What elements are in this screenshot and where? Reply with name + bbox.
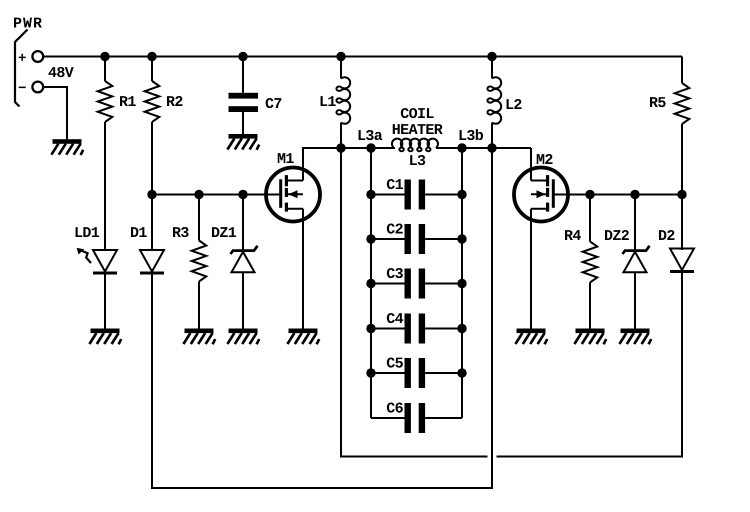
svg-text:−: − (18, 81, 26, 97)
svg-text:M2: M2 (536, 152, 553, 169)
wire top rail to R2 (151, 57, 153, 82)
ground DZ2 (619, 329, 651, 345)
wire R2 to gate node (151, 122, 153, 195)
wire L2 to L3b row (491, 123, 493, 149)
node top rail / L1 (336, 52, 345, 61)
svg-text:R1: R1 (119, 94, 136, 111)
wire DZ2 to ground (634, 272, 636, 328)
node top rail / R2 (147, 52, 156, 61)
wire C7 to ground (242, 112, 244, 134)
node tank left rail C2 (366, 234, 375, 243)
wire gate row to R3 (198, 195, 200, 241)
node tank left rail C4 (366, 324, 375, 333)
svg-text:L2: L2 (505, 97, 522, 114)
node L3b (457, 143, 466, 152)
capacitor C5 (371, 358, 462, 388)
connector J1 bracket (15, 30, 28, 107)
svg-text:48V: 48V (48, 65, 74, 82)
node tank right rail C2 (457, 234, 466, 243)
wire cross-coupling L3a to D2 cathode (341, 148, 682, 457)
node tank left rail C3 (366, 279, 375, 288)
capacitor C2 (371, 224, 462, 254)
zener diode DZ1 (231, 246, 258, 272)
inductor L2 (487, 77, 501, 124)
svg-text:R2: R2 (166, 94, 183, 111)
node gate row / R5 / D2 (677, 190, 686, 199)
svg-text:COIL: COIL (400, 106, 434, 123)
svg-text:L3b: L3b (458, 128, 484, 145)
resistor R5 (675, 83, 690, 124)
wire gate row to R4 (589, 195, 591, 242)
wire gate row to DZ2 (634, 195, 636, 251)
node gate row / R3 (194, 190, 203, 199)
svg-text:LD1: LD1 (74, 225, 100, 242)
node gate row / R4 (585, 190, 594, 199)
capacitor C3 (371, 269, 462, 299)
wire DZ1 to ground (242, 272, 244, 328)
diode D2 (670, 249, 694, 274)
wire M2 drain lead (530, 148, 532, 181)
wire top rail to R1 (104, 57, 106, 82)
node gate row / DZ2 (630, 190, 639, 199)
capacitor C6 (371, 403, 462, 433)
wire L3b to M2 drain (462, 147, 531, 149)
node tank left rail C5 (366, 368, 375, 377)
wire M1 gate row (152, 194, 280, 196)
svg-text:HEATER: HEATER (392, 122, 443, 139)
wire M1 source to ground (302, 209, 304, 329)
wire M2 source to ground (530, 209, 532, 329)
node tank left rail C1 (366, 190, 375, 199)
wire - terminal to ground (43, 87, 67, 139)
resistor R2 (145, 81, 160, 122)
svg-text:C5: C5 (386, 356, 403, 373)
node top rail / L2 (487, 52, 496, 61)
svg-text:PWR: PWR (13, 16, 43, 33)
wire tank right rail (461, 148, 463, 418)
node tank right rail C4 (457, 324, 466, 333)
svg-text:R3: R3 (172, 225, 189, 242)
wire top rail to C7 (242, 57, 244, 93)
ground R4 (574, 329, 606, 345)
node gate row / DZ1 (238, 190, 247, 199)
terminal + pin (32, 51, 43, 62)
svg-text:C1: C1 (386, 177, 403, 194)
ground power input (51, 139, 83, 155)
transistor M2 (N-MOSFET) (514, 168, 568, 222)
capacitor C4 (371, 314, 462, 344)
ground C7 (227, 134, 259, 150)
node L2 / M2 drain / cross wire (487, 143, 496, 152)
svg-text:L3a: L3a (357, 128, 383, 145)
inductor L1 (336, 77, 350, 124)
node top rail / R1 (100, 52, 109, 61)
ground LD1 (89, 329, 121, 345)
svg-text:D2: D2 (658, 228, 675, 245)
svg-text:DZ1: DZ1 (211, 225, 237, 242)
wire LD1 to ground (104, 275, 106, 329)
svg-text:M1: M1 (277, 151, 294, 168)
terminal - pin (32, 82, 43, 93)
wire top rail to R5 (681, 57, 683, 84)
svg-text:DZ2: DZ2 (604, 228, 630, 245)
svg-text:C3: C3 (386, 266, 403, 283)
svg-text:L1: L1 (319, 94, 336, 111)
wire M1 drain to L3a rail (303, 148, 395, 181)
wire D1 cathode to M2 drain node (152, 148, 492, 488)
resistor R4 (583, 242, 598, 283)
ground M2 source (515, 329, 547, 345)
wire R4 to ground (589, 283, 591, 329)
svg-text:R4: R4 (564, 228, 581, 245)
wire top rail to L2 (491, 57, 493, 79)
svg-text:C4: C4 (386, 311, 403, 328)
LED LD1 (77, 248, 117, 275)
resistor R1 (98, 81, 113, 122)
node tank right rail C3 (457, 279, 466, 288)
svg-text:C7: C7 (265, 96, 282, 113)
zener diode DZ2 (623, 246, 650, 272)
wire M2 gate row (555, 194, 683, 196)
wire L3 leads (371, 147, 462, 149)
wire R5 to gate node (681, 124, 683, 195)
ground R3 (183, 329, 215, 345)
node top rail / C7 (238, 52, 247, 61)
node tank right rail C5 (457, 368, 466, 377)
node L1 / cross wire (336, 143, 345, 152)
wire R3 to ground (198, 282, 200, 329)
wire L1 to L3a node (340, 123, 342, 149)
capacitor C1 (371, 180, 462, 210)
diode D1 (140, 250, 164, 275)
svg-text:L3: L3 (409, 153, 426, 170)
node tank right rail C1 (457, 190, 466, 199)
transistor M1 (N-MOSFET) (266, 168, 320, 222)
wire gate node to D1 (151, 195, 153, 251)
svg-text:+: + (18, 51, 26, 67)
node M1 gate / R2 / D1 (147, 190, 156, 199)
svg-text:D1: D1 (130, 225, 147, 242)
svg-text:R5: R5 (649, 95, 666, 112)
wire tank left rail (370, 148, 372, 418)
wire + terminal to top rail (43, 56, 682, 58)
wire top rail to L1 (340, 57, 342, 79)
inductor L3 work coil (392, 139, 438, 152)
wire gate row to DZ1 (242, 195, 244, 251)
ground M1 source (287, 329, 319, 345)
ground DZ1 (227, 329, 259, 345)
wire R1 to LD1 (104, 122, 106, 250)
wire gate node to D2 (681, 195, 683, 251)
node L3a (366, 143, 375, 152)
svg-text:C6: C6 (386, 401, 403, 418)
resistor R3 (192, 241, 207, 282)
svg-text:C2: C2 (386, 222, 403, 239)
capacitor C7 (polarized) (229, 93, 259, 112)
